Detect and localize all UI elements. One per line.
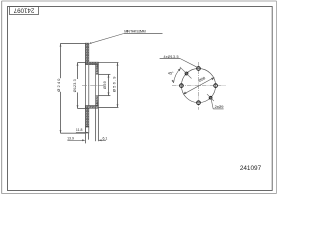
hat inner arrow top xyxy=(96,65,98,68)
hat face bore edge lines xyxy=(95,74,97,96)
dimension D240 label xyxy=(58,78,63,92)
hat dimension extension bottom xyxy=(98,106,118,108)
svg-text:Ø123.3: Ø123.3 xyxy=(73,79,77,92)
hat dimension line D56.9 xyxy=(117,63,119,108)
bolt holes leader underline xyxy=(160,58,180,60)
dimension D240 extension top xyxy=(61,42,86,44)
svg-text:Ø56.9: Ø56.9 xyxy=(111,75,116,92)
small hole NW axis xyxy=(180,67,192,79)
svg-text:45°: 45° xyxy=(168,72,174,76)
bolt hole bottom xyxy=(197,101,201,105)
dimension D240 line xyxy=(60,43,62,133)
dimension D123.3 line xyxy=(77,63,79,109)
drawing frame xyxy=(8,7,273,191)
small hole SE xyxy=(209,96,212,99)
min thickness leader arrow xyxy=(90,34,124,44)
axis centerline left view xyxy=(82,85,104,87)
title box top-left xyxy=(10,7,39,15)
dimension D240 extension bottom xyxy=(61,132,86,134)
disc plate section bottom (hatched) xyxy=(85,108,88,127)
svg-text:13.9: 13.9 xyxy=(67,136,74,140)
bolt hole left xyxy=(180,84,184,88)
svg-text:241097: 241097 xyxy=(240,165,262,172)
disc plate bottom rim outline xyxy=(85,127,88,133)
hat flange top (hatched) xyxy=(85,62,98,64)
svg-text:Ø59: Ø59 xyxy=(103,81,107,89)
height 13.9 dimension line xyxy=(67,139,84,141)
extension line plate outer face xyxy=(85,126,87,143)
small hole NW xyxy=(185,72,188,75)
dimension D123.3 extension top xyxy=(78,62,86,64)
svg-text:Ø240: Ø240 xyxy=(56,78,61,92)
dimension D123.3 label xyxy=(74,79,78,92)
hat inner arrow bottom xyxy=(96,103,98,106)
45 degree arc xyxy=(174,68,181,83)
horizontal centerline xyxy=(172,85,226,87)
dimension D123.3 extension bottom xyxy=(78,108,86,110)
small holes leader underline xyxy=(213,108,223,110)
small holes leader xyxy=(211,99,213,109)
svg-text:11.8: 11.8 xyxy=(76,128,83,132)
PCD dimension line D98 xyxy=(183,77,214,94)
small hole SE axis xyxy=(207,94,214,101)
extension line plate inner face xyxy=(88,133,90,140)
bore dimension extension top xyxy=(98,73,110,75)
bolt holes leader xyxy=(180,59,197,68)
svg-text:241097: 241097 xyxy=(13,6,34,13)
hat face upper segment (hatched) xyxy=(96,65,99,75)
disc plate middle outline xyxy=(84,62,86,108)
page edge (scan outline) xyxy=(2,1,277,194)
svg-text:MIN THK 9.2MM: MIN THK 9.2MM xyxy=(124,29,146,33)
wall 6.1 dimension line xyxy=(99,139,106,141)
bolt hole top xyxy=(197,67,201,71)
bore dimension extension bottom xyxy=(98,95,110,97)
bolt hole right xyxy=(214,84,218,88)
extension lines hat wall xyxy=(95,108,97,141)
bolt circle xyxy=(181,69,215,103)
min thickness leader underline xyxy=(124,33,163,35)
svg-text:Ø98: Ø98 xyxy=(198,76,206,83)
svg-text:6.1: 6.1 xyxy=(102,136,107,140)
hat face lower segment (hatched) xyxy=(96,96,99,106)
bore dimension line D59 xyxy=(108,74,110,95)
hat dimension extension top xyxy=(98,62,118,64)
disc plate section top (hatched) xyxy=(85,43,88,62)
vertical centerline xyxy=(198,62,200,110)
thickness 11.8 arrow xyxy=(76,132,88,134)
hat flange bottom (hatched) xyxy=(85,106,98,109)
